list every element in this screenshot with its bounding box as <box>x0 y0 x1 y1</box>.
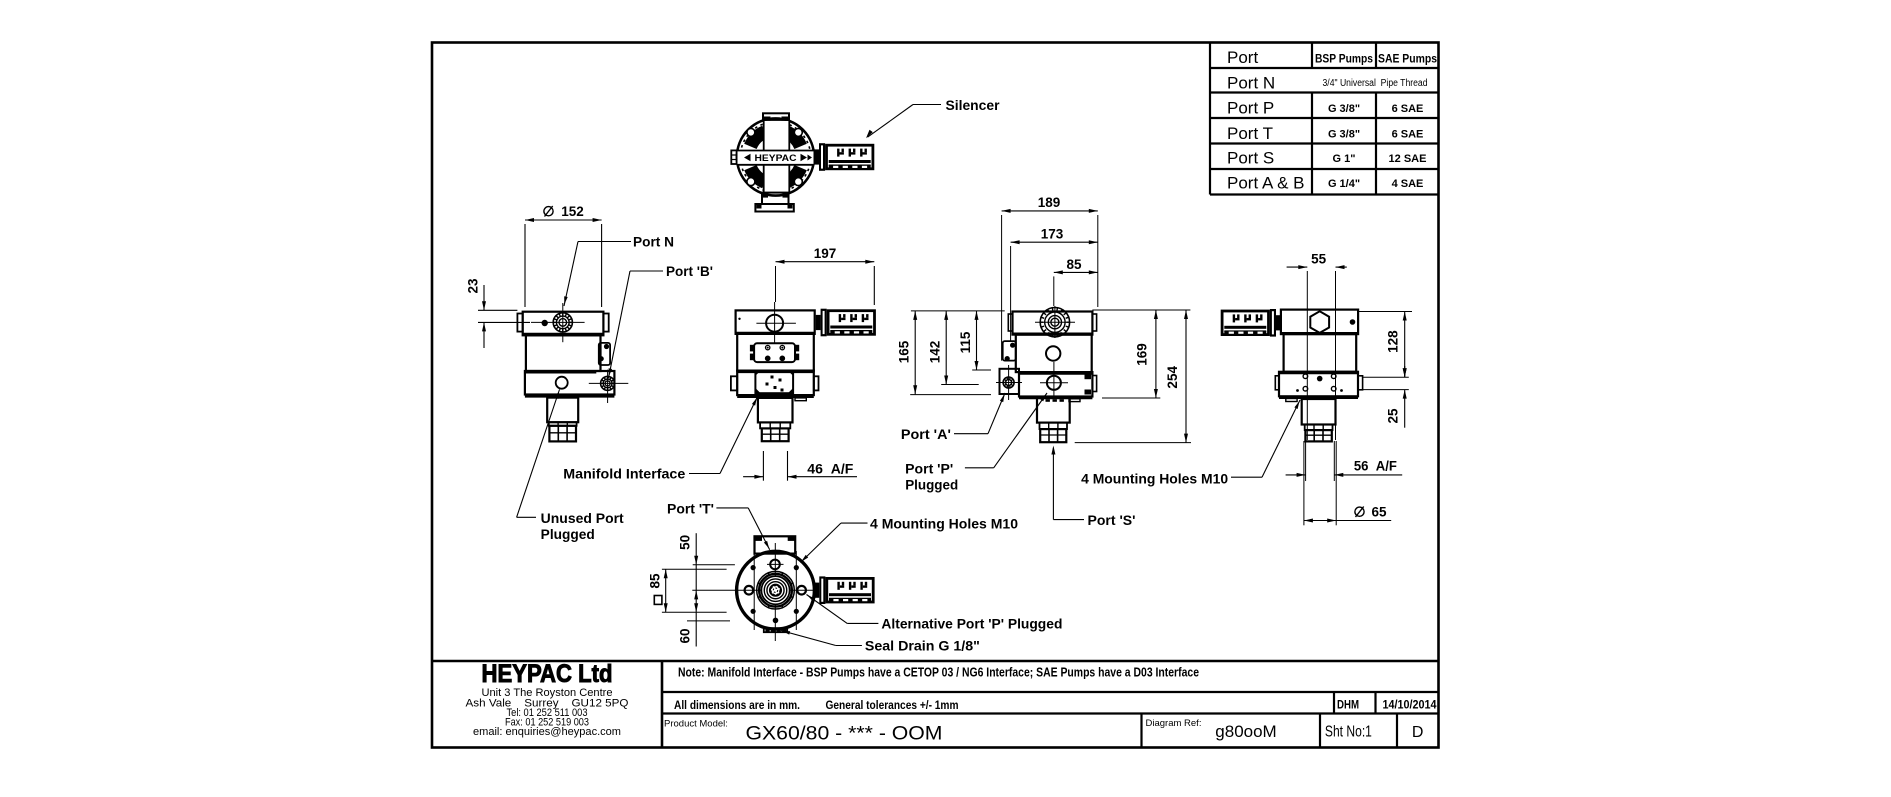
right view shaft and nut <box>1302 399 1336 441</box>
side view lower band <box>1019 372 1097 402</box>
right view top band <box>1281 310 1358 335</box>
title block <box>432 660 1439 748</box>
top view top tab <box>763 113 789 120</box>
left view lower band <box>525 371 615 396</box>
svg-text:G 1": G 1" <box>1333 153 1356 165</box>
svg-text:Port 'B': Port 'B' <box>666 264 713 279</box>
svg-text:65: 65 <box>1372 505 1388 520</box>
svg-text:Port P: Port P <box>1227 99 1274 118</box>
svg-text:G 3/8": G 3/8" <box>1328 129 1360 141</box>
top view left port tab <box>731 150 736 164</box>
svg-text:G 3/8": G 3/8" <box>1328 103 1360 115</box>
front view port N hole <box>756 302 796 343</box>
silencer label and leader <box>866 98 1000 138</box>
bottom view mounting hole dots <box>751 565 799 614</box>
alternative port P plugged label and leader <box>807 595 1063 632</box>
side view port P plugged circle <box>1040 362 1068 398</box>
left view shaft and nut <box>547 398 578 442</box>
side view port B boss <box>1003 341 1016 361</box>
bottom view dim 50 60 line <box>678 533 699 646</box>
right view silencer <box>1222 309 1281 337</box>
svg-text:SAE Pumps: SAE Pumps <box>1378 52 1437 66</box>
svg-text:152: 152 <box>561 204 584 219</box>
bottom view silencer <box>814 576 873 604</box>
svg-text:128: 128 <box>1385 330 1400 353</box>
svg-text:Silencer: Silencer <box>946 98 1001 113</box>
svg-text:60: 60 <box>678 628 693 643</box>
svg-text:Port S: Port S <box>1227 149 1274 168</box>
svg-text:BSP Pumps: BSP Pumps <box>1315 52 1373 66</box>
left view port N plug <box>531 303 585 342</box>
svg-text:3/4" Universal Pipe Thread: 3/4" Universal Pipe Thread <box>1323 78 1428 89</box>
port N label and leader <box>564 235 674 307</box>
svg-text:142: 142 <box>928 341 943 364</box>
left view unused port dot <box>542 320 548 326</box>
svg-text:Product Model:: Product Model: <box>664 719 728 730</box>
svg-text:50: 50 <box>678 535 693 550</box>
seal drain label and leader <box>781 631 980 654</box>
svg-text:Port A & B: Port A & B <box>1227 174 1305 193</box>
top view rim bolt circles <box>747 128 802 185</box>
side view dim 189 <box>1002 195 1098 361</box>
front view lower band <box>731 371 819 401</box>
top view cross rib outline <box>738 121 814 193</box>
bottom view extension lines <box>662 565 735 621</box>
drawing border frame <box>432 43 1439 748</box>
side view middle block <box>1016 335 1092 373</box>
svg-text:HEYPAC: HEYPAC <box>755 153 797 164</box>
4 mounting holes M10 left label and leader <box>801 517 1019 563</box>
left view top band <box>517 312 608 336</box>
svg-text:All dimensions are in mm.: All dimensions are in mm. <box>674 698 800 712</box>
svg-text:189: 189 <box>1038 195 1061 210</box>
svg-text:12 SAE: 12 SAE <box>1389 153 1427 165</box>
svg-text:Sht No:1: Sht No:1 <box>1325 724 1372 741</box>
right view lower band <box>1275 372 1362 402</box>
right view dim 128 <box>1358 312 1412 378</box>
front view mounting pad with holes <box>755 371 793 394</box>
bottom view splined shaft center <box>757 571 795 609</box>
svg-text:Seal Drain G 1/8": Seal Drain G 1/8" <box>865 639 980 654</box>
side view port A boss <box>996 365 1022 400</box>
left view port B boss <box>599 343 610 365</box>
svg-text:GX60/80 - *** - OOM: GX60/80 - *** - OOM <box>746 724 943 745</box>
svg-text:Port N: Port N <box>633 235 674 250</box>
port T label and leader <box>667 502 770 550</box>
side view right dims 169 254 <box>1075 310 1191 443</box>
top view corner bolt wedges <box>744 126 807 189</box>
svg-text:6 SAE: 6 SAE <box>1392 129 1424 141</box>
front view dim 46 A/F <box>743 451 857 481</box>
svg-text:Port 'P': Port 'P' <box>905 462 953 477</box>
top view pump body circle <box>737 118 814 195</box>
port P plugged label and leader <box>905 393 1047 493</box>
front view manifold interface pad <box>750 343 799 362</box>
svg-text:173: 173 <box>1041 227 1064 242</box>
svg-text:6 SAE: 6 SAE <box>1392 103 1424 115</box>
svg-text:56 A/F: 56 A/F <box>1354 459 1397 474</box>
svg-text:G 1/4": G 1/4" <box>1328 178 1360 190</box>
bottom view port T boss <box>755 536 796 553</box>
svg-text:Plugged: Plugged <box>905 478 958 493</box>
left view middle block <box>526 335 601 371</box>
svg-text:Port N: Port N <box>1227 74 1275 93</box>
svg-text:Port: Port <box>1227 48 1258 67</box>
top view bottom mounting tab <box>755 193 793 212</box>
unused port plugged label and leader <box>517 390 625 543</box>
left view dim 23 <box>466 278 531 348</box>
top view HEYPAC embossed text <box>744 153 812 164</box>
svg-text:85: 85 <box>1066 257 1082 272</box>
svg-text:46 A/F: 46 A/F <box>807 462 853 477</box>
port S label and leader <box>1051 446 1135 529</box>
svg-text:g80ooM: g80ooM <box>1215 722 1276 741</box>
right view dim 65 diameter <box>1304 441 1391 525</box>
right view dim 56 A/F <box>1286 441 1403 481</box>
svg-text:115: 115 <box>958 331 973 353</box>
svg-text:HEYPAC Ltd: HEYPAC Ltd <box>482 660 613 688</box>
svg-text:Port T: Port T <box>1227 124 1273 143</box>
svg-text:Port 'T': Port 'T' <box>667 502 714 517</box>
port B label and leader <box>609 264 714 378</box>
top view silencer <box>814 143 873 171</box>
manifold interface label and leader <box>563 397 757 482</box>
svg-text:85: 85 <box>648 573 663 589</box>
svg-text:D: D <box>1412 724 1424 741</box>
right view dim 25 <box>1363 366 1409 428</box>
side view port N plugged knurled <box>1035 306 1075 338</box>
port A label and leader <box>901 393 1005 442</box>
svg-text:Alternative Port 'P' Plugged: Alternative Port 'P' Plugged <box>881 617 1062 632</box>
svg-text:Manifold Interface: Manifold Interface <box>563 467 686 482</box>
svg-text:Diagram Ref:: Diagram Ref: <box>1146 718 1202 729</box>
bottom view port T hole <box>767 560 784 570</box>
front view silencer <box>816 309 875 337</box>
svg-text:169: 169 <box>1135 343 1150 366</box>
4 mounting holes M10 right label and leader <box>1081 400 1300 487</box>
svg-text:197: 197 <box>814 246 837 261</box>
bottom view centerlines <box>692 543 816 641</box>
bottom view side holes <box>745 586 806 595</box>
front view top band <box>736 310 815 334</box>
bottom view dim 85 square <box>648 569 668 612</box>
svg-text:Plugged: Plugged <box>541 527 595 542</box>
bottom view seal drain <box>764 618 787 633</box>
svg-text:Unused Port: Unused Port <box>541 511 625 526</box>
svg-text:email: enquiries@heypac.com: email: enquiries@heypac.com <box>473 726 621 738</box>
svg-text:DHM: DHM <box>1337 698 1359 712</box>
svg-text:55: 55 <box>1311 252 1327 267</box>
svg-text:23: 23 <box>466 278 481 294</box>
side view dim 173 <box>1011 227 1098 342</box>
svg-text:4 Mounting Holes M10: 4 Mounting Holes M10 <box>1081 472 1228 487</box>
front view shaft and nut <box>758 398 793 441</box>
svg-text:165: 165 <box>897 340 912 363</box>
bottom view body circle <box>737 551 815 629</box>
right view middle block <box>1284 334 1357 372</box>
svg-text:14/10/2014: 14/10/2014 <box>1383 698 1437 712</box>
left view manifold hole <box>556 377 568 389</box>
left view dim 152 diameter <box>525 204 602 307</box>
svg-text:Port 'S': Port 'S' <box>1088 513 1136 528</box>
svg-text:4 Mounting Holes M10: 4 Mounting Holes M10 <box>870 517 1018 532</box>
side view middle circle <box>1046 346 1060 360</box>
right view hex bolt head <box>1310 311 1329 333</box>
side view shaft and nut <box>1037 398 1070 443</box>
left view port B plug <box>589 370 629 403</box>
svg-text:254: 254 <box>1165 366 1180 389</box>
svg-text:Port 'A': Port 'A' <box>901 427 951 442</box>
side view left dims 165 142 115 <box>897 311 1005 395</box>
front view middle block <box>737 334 814 371</box>
side view dim 85 <box>1054 257 1098 306</box>
side view top band <box>1008 312 1096 335</box>
svg-text:25: 25 <box>1385 408 1400 424</box>
svg-text:General tolerances +/- 1mm: General tolerances +/- 1mm <box>826 698 959 712</box>
right view dim 55 <box>1287 252 1347 441</box>
port size table <box>1210 43 1439 195</box>
svg-text:Note: Manifold Interface - BSP: Note: Manifold Interface - BSP Pumps hav… <box>678 666 1199 680</box>
svg-text:4 SAE: 4 SAE <box>1392 178 1424 190</box>
front view dim 197 <box>776 246 875 305</box>
